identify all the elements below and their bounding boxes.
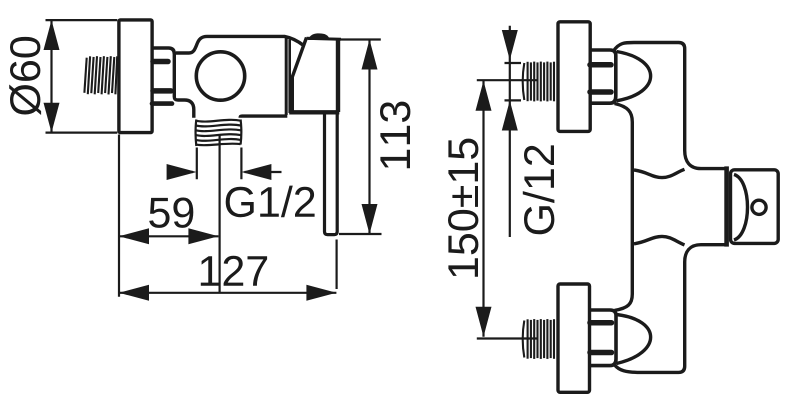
dimension Ø60 arrowheads [44, 20, 60, 50]
top eccentric dome arc [617, 52, 651, 101]
bottom supply pipe thread (hatched) [523, 319, 554, 359]
body / handle-base separation lines [285, 38, 288, 115]
G1/2 dimension lines with outside arrowheads [168, 171, 282, 173]
handle cap dome arc [734, 175, 748, 241]
dimension 150±15 line [482, 81, 484, 337]
dimension label 113 (rotated) [380, 102, 410, 169]
dimension label G/12 (rotated) [523, 145, 555, 234]
top pipe centerline [477, 79, 537, 81]
hex nut (side view, right of flange) [152, 48, 174, 104]
handle base (trapezoid) [289, 38, 341, 113]
dimension 127 line [119, 292, 336, 294]
handle end-view rectangle [731, 170, 779, 244]
cartridge circle [196, 52, 244, 100]
left extension line under flange [118, 135, 120, 297]
extension line under lever [336, 240, 338, 290]
dimension Ø60 line [50, 20, 52, 133]
wall flange (side view) [119, 20, 152, 133]
dimension label 127 [201, 256, 267, 286]
inlet boss top edge + body top edge + shoulder curve [176, 36, 304, 53]
bottom pipe centerline [477, 337, 537, 339]
bottom wall flange (front view) [558, 284, 590, 392]
handle screw hole circle [752, 200, 766, 214]
body outline lower: handle tube bottom, right edge, bottom edge, fillet to bottom nut [615, 245, 728, 373]
inlet pipe thread (hatched, left of flange) [84, 56, 117, 94]
G/12 dimension line [509, 26, 511, 237]
dimension label 150±15 (rotated) [448, 139, 478, 277]
dimension label 59 [149, 198, 193, 228]
dimension 59 arrowheads [119, 228, 149, 244]
G/12 tick marks at thread [505, 63, 522, 100]
G/12 arrowheads (outside, pointing inward) [502, 30, 518, 60]
dimension 113 line [368, 40, 370, 235]
dimension 113 extension lines [339, 40, 382, 235]
bottom hex nut (front view) [590, 310, 616, 366]
body waist curve upper [634, 169, 685, 177]
G1/2 extension lines at outlet thread [197, 148, 242, 180]
outlet centerline [219, 136, 221, 293]
bottom eccentric dome arc [617, 315, 651, 364]
dimension label Ø60 (rotated) [9, 37, 41, 115]
handle mount line [724, 166, 729, 246]
dimension Ø60 extension lines [46, 20, 118, 133]
body left edge with fillets to nuts [615, 104, 633, 311]
top wall flange (front view) [558, 22, 590, 132]
dimension 113 arrowheads [362, 40, 378, 70]
dimension 150±15 arrowheads [476, 81, 492, 111]
dimension label G1/2 [226, 186, 315, 218]
body outline upper: fillet from top nut, top edge, right edge, fillet to handle tube [614, 43, 728, 169]
body waist curve lower [634, 236, 685, 245]
lever tail bump (filled) [308, 33, 330, 40]
valve body outline: nut right edge, inlet boss, top edge to handle shoulder [174, 52, 194, 118]
body bottom edge right of outlet [240, 116, 287, 118]
dimension 59 line [119, 235, 218, 237]
dimension 127 arrowheads [119, 285, 149, 301]
top supply pipe thread (hatched) [523, 62, 554, 102]
outlet thread (G1/2, wavy rows) [196, 120, 242, 147]
top hex nut (front view) [590, 50, 616, 103]
lever bar (pointing down) [325, 113, 338, 235]
